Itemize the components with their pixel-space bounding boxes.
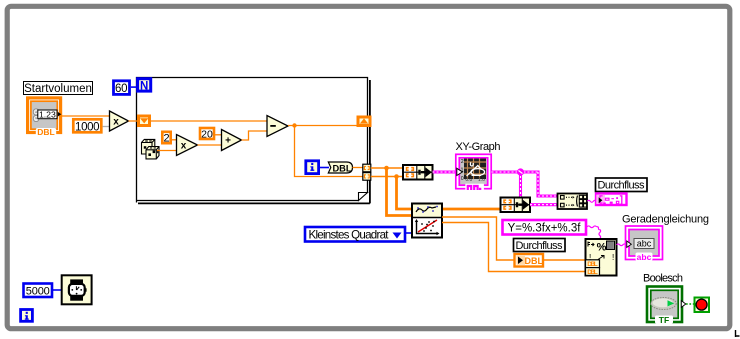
svg-text:1.0: 1.0 bbox=[478, 177, 485, 183]
constant 60 bbox=[114, 81, 130, 95]
wire 60 to N bbox=[131, 86, 138, 88]
svg-text:DBL: DBL bbox=[37, 127, 54, 137]
label Startvolumen bbox=[24, 82, 93, 96]
junction on Y wire bbox=[394, 174, 399, 179]
svg-text:Durchfluss: Durchfluss bbox=[516, 240, 564, 252]
svg-text:TF: TF bbox=[659, 315, 669, 325]
boolean dotted wire bbox=[686, 303, 694, 305]
boolean control Boolesch bbox=[647, 287, 686, 325]
cluster wire junction down to bundle2 bbox=[519, 172, 522, 197]
string-style wire build array to indicator bbox=[587, 200, 596, 202]
wire shift register to subtract bbox=[151, 120, 267, 122]
svg-text:x: x bbox=[113, 117, 119, 128]
wire M2 to add bbox=[198, 144, 222, 146]
svg-text:Boolesch: Boolesch bbox=[643, 272, 683, 284]
svg-text:Startvolumen: Startvolumen bbox=[24, 83, 92, 95]
stop LED terminal bbox=[695, 298, 710, 313]
svg-text:Durchfluss: Durchfluss bbox=[598, 180, 646, 192]
wire 20 to add bbox=[215, 134, 222, 136]
string wire format to abc indicator bbox=[617, 244, 627, 246]
cluster wire bundle1 to XY graph bbox=[433, 170, 457, 173]
svg-text:N: N bbox=[140, 81, 148, 93]
svg-text:2: 2 bbox=[163, 133, 169, 145]
svg-text:0.0: 0.0 bbox=[465, 177, 472, 183]
build array node bbox=[558, 194, 588, 210]
svg-text:%: % bbox=[597, 242, 607, 254]
svg-text:+: + bbox=[225, 136, 231, 147]
cluster junction dot bbox=[517, 168, 524, 175]
dropdown Kleinstes Quadrat bbox=[305, 227, 405, 242]
junction node bbox=[292, 123, 296, 127]
wire multiply to left shift register bbox=[129, 120, 139, 122]
tunnel 1 bbox=[363, 164, 371, 172]
format into string node bbox=[586, 239, 617, 276]
loop count terminal N bbox=[138, 79, 151, 93]
svg-text:Y=%.3fx+%.3f: Y=%.3fx+%.3f bbox=[508, 223, 582, 235]
iteration terminal i (bottom) bbox=[21, 310, 33, 322]
wire i to DBL conversion bbox=[320, 167, 330, 169]
wire DBL to tunnel 1 bbox=[353, 167, 363, 169]
XY-Graph terminal bbox=[456, 154, 491, 190]
multiply node M2 bbox=[177, 135, 198, 156]
tunnel 2 bbox=[363, 173, 371, 181]
multiply node M1 bbox=[110, 111, 129, 131]
string constant Y formula bbox=[503, 220, 587, 235]
iteration terminal i bbox=[306, 161, 319, 174]
indicator Durchfluss DBL bbox=[515, 254, 544, 267]
string wire constant to format node bbox=[587, 226, 601, 239]
junction on X wire bbox=[384, 166, 389, 171]
constant 2 bbox=[162, 132, 170, 145]
svg-text:60: 60 bbox=[115, 83, 128, 95]
svg-text:2: 2 bbox=[461, 159, 464, 165]
svg-text:DBL: DBL bbox=[332, 163, 351, 173]
svg-text:Geradengleichung: Geradengleichung bbox=[622, 213, 709, 225]
wire intercept output to format bbox=[442, 223, 586, 272]
To DBL conversion node bbox=[328, 162, 352, 173]
wire DBL indicator to format node bbox=[544, 259, 586, 261]
array wire down to linear fit Y input bbox=[397, 177, 412, 210]
wire dice to multiply M2 bbox=[157, 150, 177, 152]
svg-text:DBL: DBL bbox=[587, 269, 598, 276]
partial label bottom right bbox=[736, 330, 740, 337]
add node A1 bbox=[222, 130, 242, 151]
wire control to multiply bbox=[62, 115, 110, 117]
array wire best fit output to bundle 2 bbox=[443, 208, 502, 211]
svg-text:5000: 5000 bbox=[26, 285, 50, 297]
wire add to subtract bbox=[242, 131, 268, 140]
svg-text:!: ! bbox=[612, 253, 614, 262]
indicator Geradengleichung abc bbox=[626, 226, 663, 262]
svg-text:DBL: DBL bbox=[587, 261, 598, 268]
svg-text:x: x bbox=[181, 141, 187, 152]
svg-text:0: 0 bbox=[461, 176, 464, 182]
shift register right bbox=[358, 117, 370, 126]
svg-text:abc: abc bbox=[637, 239, 652, 249]
svg-text:1000: 1000 bbox=[75, 121, 100, 133]
array wire down to linear fit X input bbox=[387, 168, 412, 216]
cluster wire bundle2 to build array bbox=[530, 203, 557, 206]
label Durchfluss (DBL) bbox=[514, 239, 566, 252]
numeric control Startvolumen (DBL) bbox=[28, 98, 62, 137]
wire tunnel2 to bundle bbox=[371, 176, 403, 178]
dice icon (random number) bbox=[142, 139, 160, 159]
svg-text:20: 20 bbox=[201, 129, 213, 141]
subtract node S1 bbox=[267, 116, 288, 137]
wait ms VI (watch) bbox=[62, 275, 92, 304]
svg-text:XY-Graph: XY-Graph bbox=[456, 141, 501, 153]
svg-text:abc: abc bbox=[637, 252, 652, 262]
svg-text:DBL: DBL bbox=[525, 256, 544, 266]
loop corner fold bbox=[359, 193, 368, 201]
constant 5000 bbox=[24, 284, 53, 298]
shift register left bbox=[139, 116, 150, 126]
wire 2 to multiply M2 bbox=[171, 139, 177, 141]
wire 5000 to wait bbox=[52, 289, 61, 291]
svg-text:1.23: 1.23 bbox=[39, 109, 56, 119]
constant 20 bbox=[200, 128, 214, 141]
linear fit VI bbox=[412, 204, 442, 238]
wire dropdown to linear fit bbox=[405, 232, 412, 234]
svg-text:Kleinstes Quadrat: Kleinstes Quadrat bbox=[309, 228, 390, 241]
for-loop border bbox=[137, 78, 370, 204]
constant 1000 bbox=[73, 119, 101, 133]
bundle node B2 bbox=[501, 198, 531, 213]
wire junction down to tunnel bbox=[295, 126, 363, 177]
wire 1000 to multiply bbox=[103, 126, 110, 128]
wire tunnel1 to bundle bbox=[371, 167, 403, 169]
label Durchfluss (array) bbox=[596, 178, 648, 192]
cluster wire XY graph to junction and build array bbox=[492, 172, 558, 196]
bundle node B1 bbox=[403, 165, 433, 180]
wire slope output to DBL indicator and format bbox=[442, 217, 514, 260]
indicator Durchfluss (cluster array) bbox=[596, 194, 627, 206]
wire subtract to right shift register bbox=[288, 125, 358, 127]
